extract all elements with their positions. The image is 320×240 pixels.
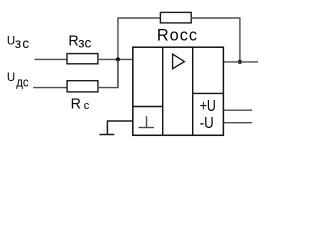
resistor Rocc bbox=[160, 12, 191, 23]
node output junction bbox=[238, 60, 242, 64]
svg-text:R: R bbox=[68, 34, 78, 50]
svg-text:U: U bbox=[7, 72, 15, 84]
wire input Uds to Rc bbox=[33, 87, 67, 89]
op-amp U1 body bbox=[133, 47, 224, 135]
wire ground from box bbox=[107, 121, 132, 135]
wire opamp output bbox=[223, 61, 258, 63]
op-amp divider left bbox=[162, 47, 164, 135]
svg-text:-U: -U bbox=[200, 115, 214, 132]
svg-text:зс: зс bbox=[15, 36, 31, 51]
wire -U supply bbox=[223, 122, 252, 124]
resistor Rzs bbox=[67, 54, 98, 64]
wire summing node vertical bbox=[117, 18, 119, 88]
wire Rc to summing node bbox=[97, 59, 118, 87]
wire Rzs to opamp input bbox=[98, 58, 133, 60]
resistor Rc bbox=[67, 81, 98, 92]
svg-text:с: с bbox=[84, 100, 90, 112]
ground bar bbox=[99, 134, 114, 136]
wire +U supply bbox=[223, 109, 252, 111]
op-amp ground compartment divider bbox=[133, 106, 163, 108]
svg-text:R: R bbox=[71, 96, 81, 112]
op-amp power compartment divider bbox=[193, 92, 224, 94]
op-amp triangle symbol bbox=[173, 54, 185, 69]
ground pin symbol inside compartment bbox=[146, 116, 148, 127]
wire feedback top left bbox=[117, 17, 160, 19]
wire input Uzs to Rzs bbox=[34, 58, 67, 60]
svg-text:Rосс: Rосс bbox=[157, 26, 198, 44]
node summing junction bbox=[116, 57, 120, 61]
svg-text:+U: +U bbox=[200, 98, 216, 115]
svg-text:зс: зс bbox=[78, 35, 91, 50]
wire feedback vertical right bbox=[239, 18, 241, 62]
op-amp divider right bbox=[192, 47, 194, 135]
wire feedback top right bbox=[191, 17, 241, 19]
svg-text:дс: дс bbox=[16, 74, 29, 89]
